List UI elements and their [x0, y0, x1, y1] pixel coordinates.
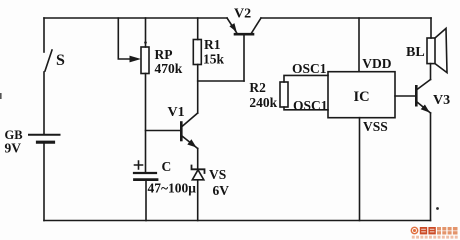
transistor V1 emitter	[182, 136, 198, 149]
svg-text:R1: R1	[204, 37, 221, 52]
wire R1 bottom to V1 collector	[197, 65, 199, 114]
wire R1 to V2 base link	[198, 80, 244, 82]
svg-text:470k: 470k	[155, 61, 183, 76]
watermark text small row1	[437, 227, 458, 231]
svg-text:VDD: VDD	[362, 56, 391, 71]
wire RP bottom to node A	[145, 74, 147, 174]
wire R1 top lead	[197, 18, 199, 40]
svg-text:47~100μ: 47~100μ	[148, 181, 197, 196]
wire V3 emitter lead	[430, 113, 432, 221]
svg-text:V1: V1	[168, 105, 185, 120]
svg-text:V2: V2	[234, 7, 251, 22]
transistor V2 emitter	[227, 18, 237, 33]
RP wiper arrowhead	[130, 56, 142, 63]
svg-text:BL: BL	[406, 45, 425, 60]
svg-text:OSC1: OSC1	[292, 61, 327, 76]
svg-text:R2: R2	[249, 80, 266, 95]
transistor V3 emitter arrowhead	[421, 105, 430, 113]
capacitor C plus sign	[135, 161, 143, 169]
wire V3 collector to speaker	[430, 64, 432, 80]
battery GB positive plate	[29, 134, 60, 136]
op-amp IC box	[328, 72, 395, 118]
transistor V2 base lead	[243, 35, 245, 81]
zener diode VS triangle	[192, 170, 204, 180]
svg-text:VS: VS	[209, 167, 226, 182]
svg-text:S: S	[56, 52, 65, 69]
ink speck	[436, 207, 439, 210]
wire VSS lead	[359, 118, 361, 221]
transistor V2 emitter arrowhead	[229, 23, 236, 32]
transistor V3 emitter	[417, 102, 431, 113]
wire top rail left	[44, 17, 227, 19]
transistor V2 collector	[252, 18, 262, 33]
potentiometer RP body	[141, 47, 149, 74]
node dot on RP lead	[144, 41, 147, 44]
transistor V2 base bar	[235, 33, 253, 36]
battery GB negative plate	[38, 141, 54, 144]
speaker BL cone	[435, 28, 447, 72]
svg-text:VSS: VSS	[363, 119, 388, 134]
capacitor C bottom plate	[135, 178, 158, 181]
wire OSC1 bottom	[284, 107, 328, 110]
resistor R1 body	[193, 40, 201, 65]
svg-text:C: C	[162, 159, 172, 174]
watermark text bottom tiny row	[412, 236, 458, 239]
transistor V3 bar	[415, 86, 418, 105]
wire speaker top lead	[430, 18, 432, 38]
svg-text:IC: IC	[354, 89, 370, 105]
svg-text:6V: 6V	[213, 183, 230, 198]
svg-text:V3: V3	[433, 93, 450, 108]
transistor V1 bar	[180, 123, 183, 141]
svg-text:OSC1: OSC1	[293, 98, 328, 113]
wire V1 base	[146, 130, 182, 132]
svg-text:15k: 15k	[203, 52, 225, 67]
svg-text:9V: 9V	[5, 141, 22, 156]
scanner mark left edge	[0, 93, 2, 99]
wire VDD lead	[358, 18, 360, 72]
watermark text weiku	[420, 227, 436, 234]
wire RP wiper branch	[118, 18, 129, 59]
wire OSC1 top	[284, 75, 328, 82]
wire V1 emitter to VS	[197, 149, 199, 170]
wire RP top lead	[145, 18, 147, 47]
wire left branch upper	[43, 18, 45, 52]
wire VS bottom lead	[197, 180, 199, 221]
transistor V1 emitter arrowhead	[187, 139, 196, 147]
wire C bottom lead	[145, 180, 147, 221]
svg-text:240k: 240k	[249, 95, 277, 110]
capacitor C top plate	[134, 172, 156, 174]
resistor R2 body	[280, 82, 288, 107]
wire bottom rail	[44, 220, 431, 222]
transistor V3 collector	[417, 80, 431, 90]
transistor V1 collector	[182, 113, 198, 127]
switch S	[45, 50, 52, 71]
wire left branch middle	[43, 72, 45, 134]
svg-text:RP: RP	[155, 47, 173, 62]
wire left branch lower	[43, 142, 45, 220]
wire IC to V3 base	[395, 95, 416, 97]
wire top rail right	[261, 17, 431, 19]
speaker BL body	[427, 38, 435, 64]
watermark logo circle	[411, 227, 419, 235]
zener diode VS cathode bar	[192, 166, 205, 174]
watermark text small row2	[437, 231, 458, 234]
